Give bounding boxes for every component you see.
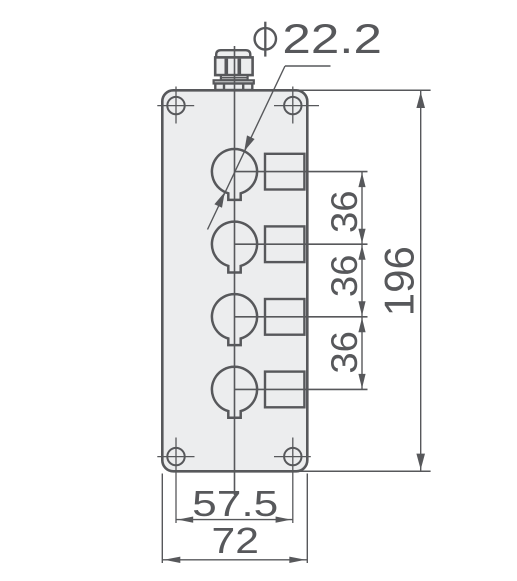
svg-text:22.2: 22.2: [282, 15, 382, 62]
center extension line hole 1: [235, 171, 368, 173]
72 dimension line: [162, 557, 307, 563]
svg-text:72: 72: [212, 520, 259, 561]
svg-text:36: 36: [324, 191, 365, 234]
cable gland locknut: [215, 84, 252, 91]
cable gland cap: [216, 50, 250, 57]
bottom extension line (196 dim, lower): [296, 470, 431, 472]
contact window square 2: [265, 226, 304, 262]
center extension line hole 3: [235, 316, 368, 318]
contact window square 3: [265, 299, 304, 335]
center extension line hole 2: [235, 243, 368, 245]
mounting hole top-right: [274, 87, 319, 124]
contact window square 1: [265, 154, 304, 190]
contact window square 4: [265, 372, 304, 408]
57.5 dimension line: [176, 517, 293, 523]
cable gland hex facet right: [238, 59, 242, 75]
button hole 2 with keyway notch: [212, 222, 257, 273]
cable gland hex body: [215, 57, 252, 75]
mounting hole bottom-right: [274, 438, 311, 524]
36 dimension line: [358, 172, 365, 390]
72 extension line right: [306, 474, 308, 564]
cable gland hex facet left: [225, 59, 229, 75]
leader line for diameter label: [208, 66, 331, 230]
vertical centerline: [234, 46, 236, 495]
button hole 1 with keyway notch: [212, 149, 257, 200]
button hole 4 with keyway notch: [212, 367, 257, 418]
mounting hole bottom-left: [157, 438, 194, 524]
72 extension line left: [161, 474, 163, 564]
button hole 3 with keyway notch: [212, 294, 257, 345]
svg-text:36: 36: [324, 255, 365, 298]
cable gland upper flange: [221, 75, 248, 80]
center extension line hole 4: [235, 388, 368, 390]
svg-text:57.5: 57.5: [192, 483, 278, 524]
cable gland locknut facet right: [242, 84, 244, 90]
svg-text:196: 196: [375, 246, 422, 316]
196 dimension line: [416, 90, 425, 471]
mounting hole top-left: [157, 87, 194, 124]
enclosure body: [162, 90, 307, 471]
cable gland locknut facet left: [223, 84, 225, 90]
cable gland thin washer: [214, 80, 254, 83]
top extension line (196 dim, upper): [296, 89, 431, 91]
svg-text:36: 36: [324, 331, 365, 374]
phi symbol: [255, 22, 276, 57]
